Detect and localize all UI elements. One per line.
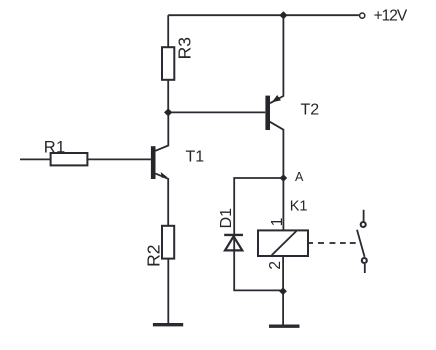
svg-text:R1: R1	[44, 139, 66, 157]
svg-text:1: 1	[269, 218, 286, 227]
svg-text:T1: T1	[186, 149, 205, 166]
svg-text:T2: T2	[301, 101, 320, 118]
svg-text:R3: R3	[174, 37, 194, 59]
svg-text:+12V: +12V	[374, 7, 408, 24]
svg-text:K1: K1	[290, 198, 308, 214]
svg-text:D1: D1	[218, 208, 235, 229]
svg-text:2: 2	[267, 261, 284, 270]
svg-text:A: A	[295, 170, 304, 184]
svg-text:R2: R2	[143, 245, 163, 267]
